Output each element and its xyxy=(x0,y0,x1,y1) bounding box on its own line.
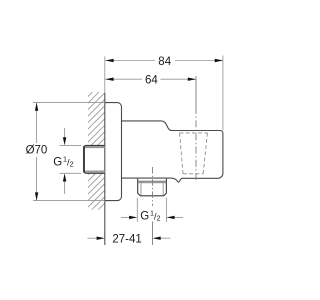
elbow body with shower holder outline xyxy=(122,121,223,182)
dimension G1/2 (wall side): bottom arrow xyxy=(64,179,66,194)
bottom outlet thread top gray band xyxy=(138,180,167,182)
dimension O70: dimension line xyxy=(36,103,38,143)
dimension 27-41: right arrow xyxy=(160,237,171,239)
holder center line (64 reference) xyxy=(195,76,197,107)
svg-text:27-41: 27-41 xyxy=(112,233,141,245)
dimension O70: arrowheads xyxy=(35,103,38,111)
dimension 27-41: left arrow xyxy=(87,237,97,239)
holder cone hidden lines (dashed) xyxy=(180,133,208,174)
escutcheon (wall flange, O70) xyxy=(105,103,122,201)
svg-text:64: 64 xyxy=(145,75,158,87)
wall-side thread outline xyxy=(84,145,105,173)
dimension G1/2 (outlet): extension lines xyxy=(136,198,138,222)
bottom outlet thread G1/2 : outline xyxy=(138,179,167,196)
svg-text:G1/2: G1/2 xyxy=(140,208,160,222)
dimension 84: extension line right xyxy=(222,56,224,131)
outlet center line xyxy=(152,167,154,206)
dimension 64: arrowheads xyxy=(105,78,113,81)
dimension 84: arrowheads xyxy=(105,59,113,62)
svg-text:G1/2: G1/2 xyxy=(53,154,73,168)
dimension G1/2 (outlet): right arrow xyxy=(174,216,183,218)
wall face line xyxy=(104,57,106,94)
bottom outlet thread inner root lines xyxy=(140,182,142,195)
wall-side thread thick left edge xyxy=(83,146,85,172)
dimension 64: dimension line xyxy=(105,78,142,80)
dimension 84: dimension line xyxy=(105,60,155,62)
wall-side thread G1/2 : gray crest bands xyxy=(84,146,105,148)
dimension G1/2 (wall side): top arrow xyxy=(64,128,66,140)
svg-text:Ø70: Ø70 xyxy=(26,145,48,157)
wall section hatching xyxy=(78,66,112,243)
svg-text:84: 84 xyxy=(158,56,171,68)
dimension G1/2 (wall side): extension lines xyxy=(60,144,82,146)
dimension O70: extension lines xyxy=(33,102,105,104)
dimension G1/2 (outlet): left arrow xyxy=(121,216,130,218)
